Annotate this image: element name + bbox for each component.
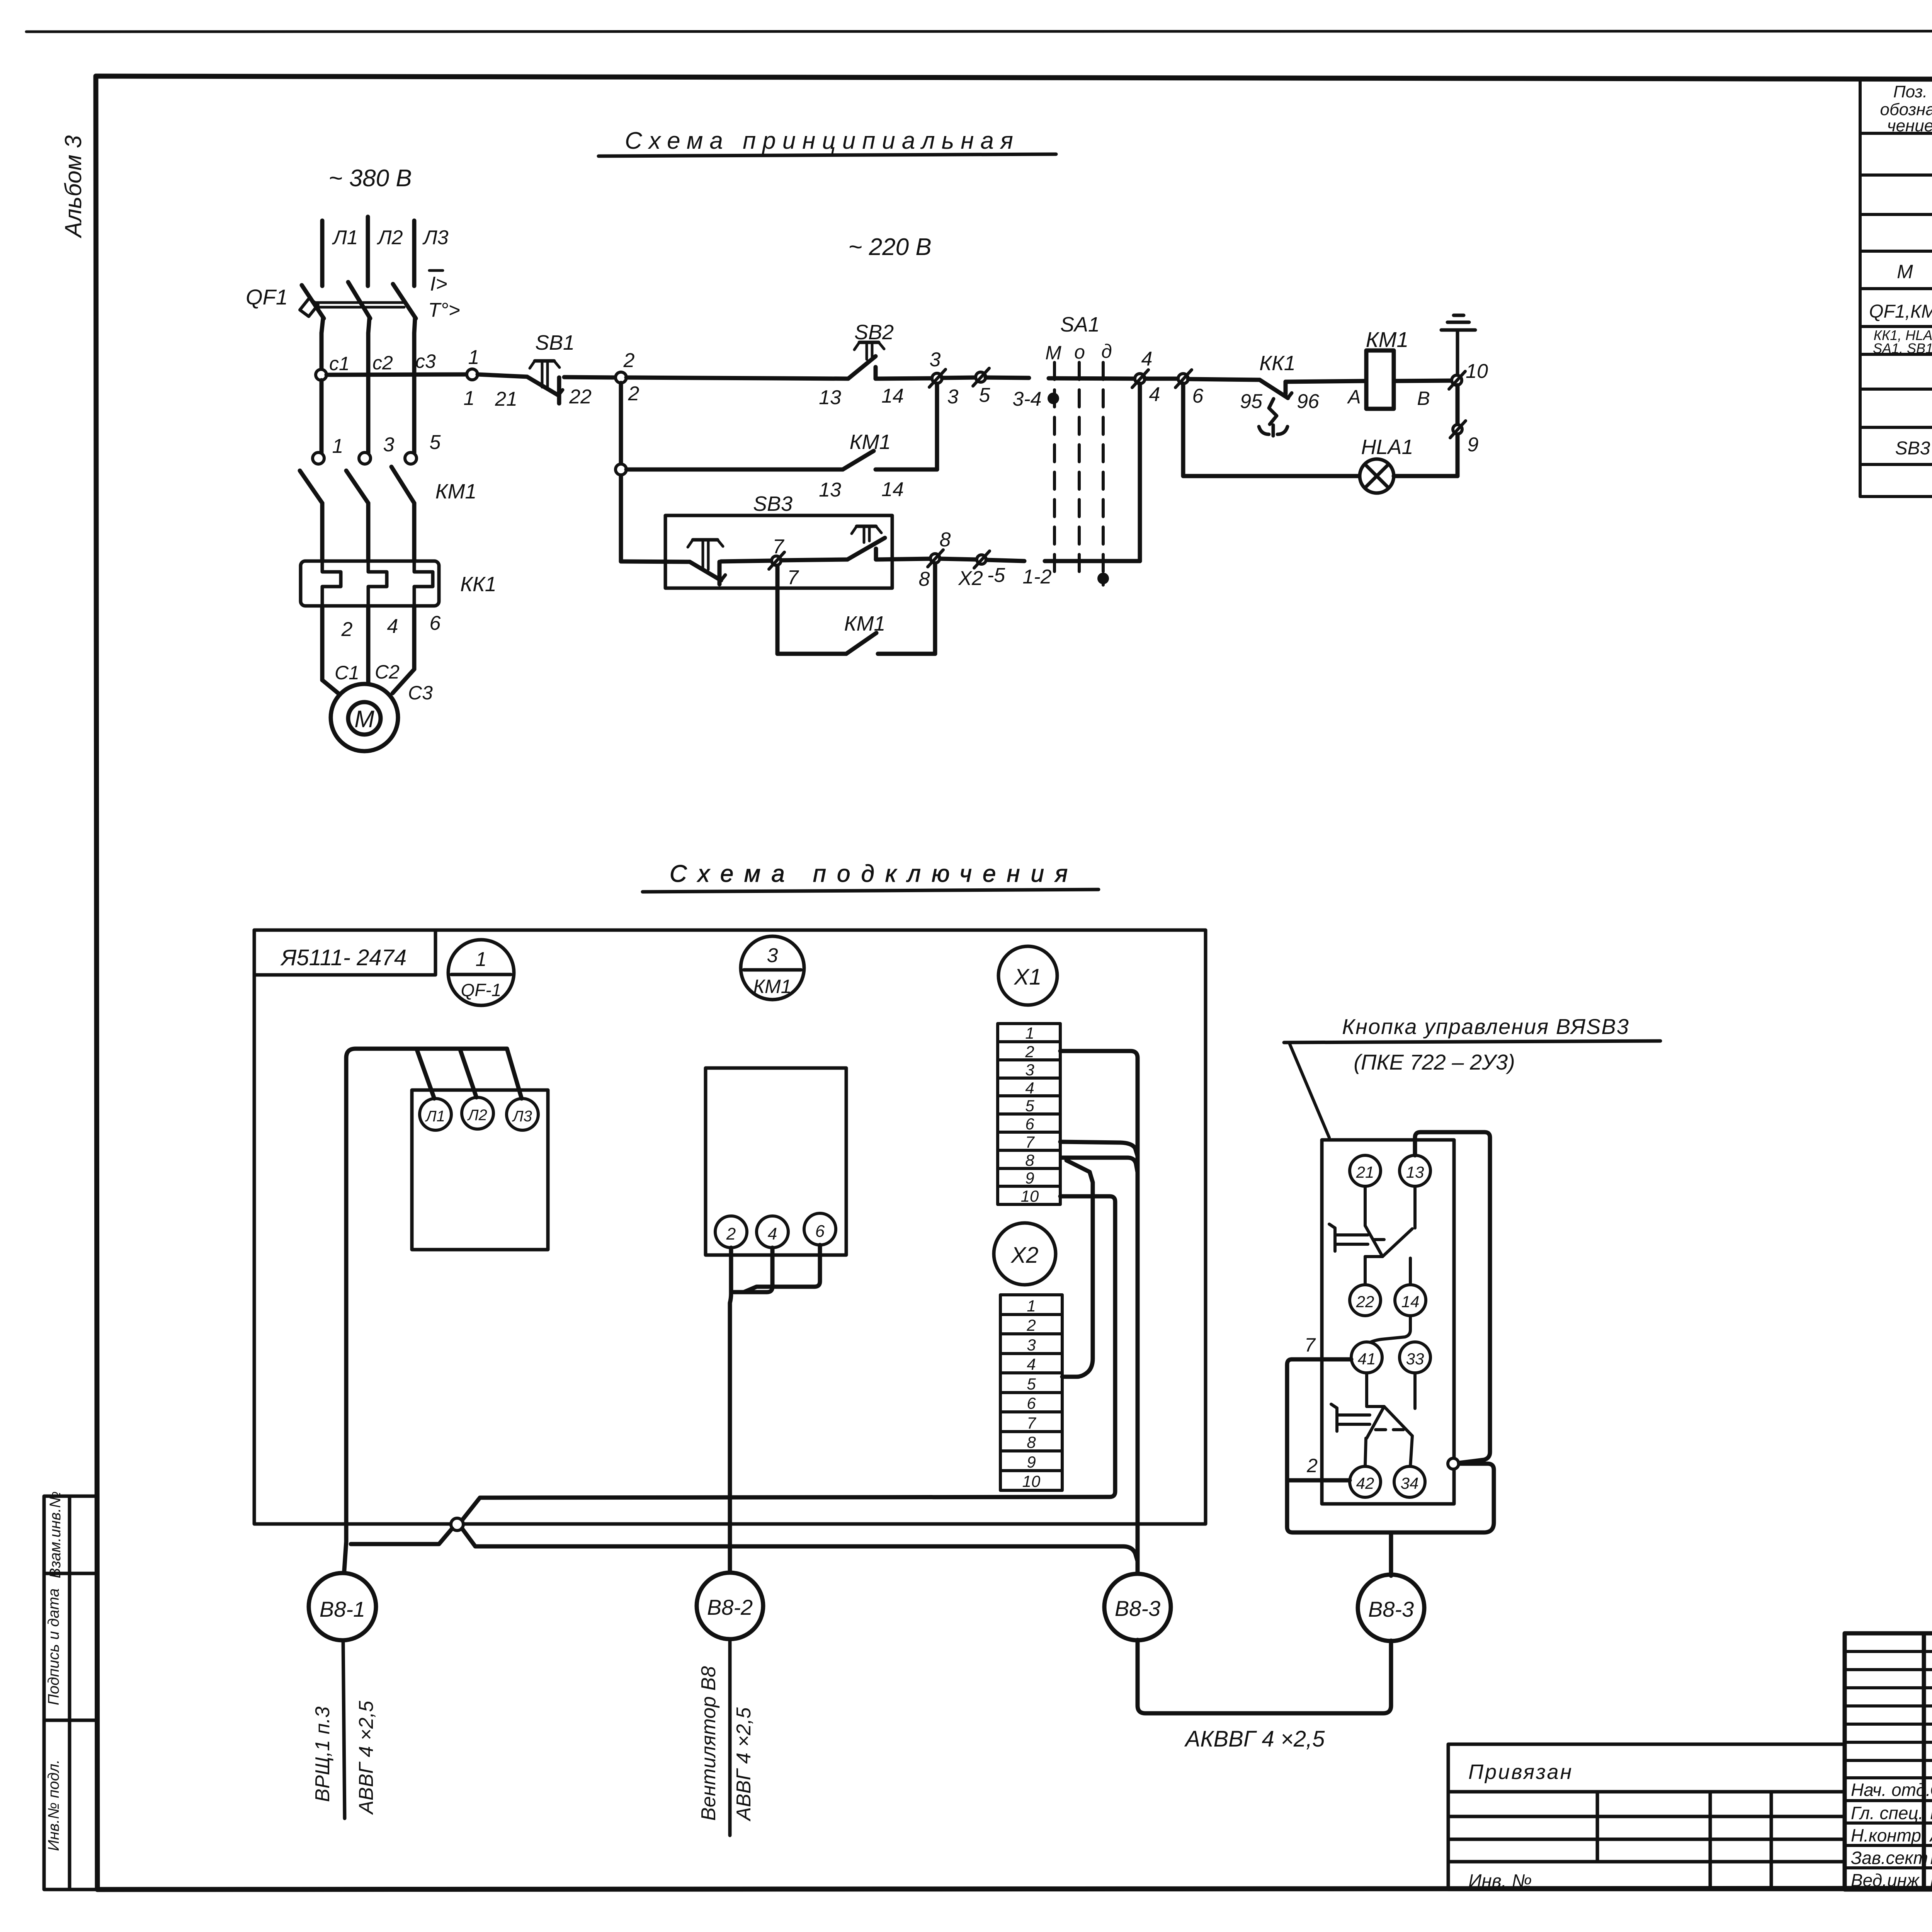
svg-text:T°>: T°> [428, 299, 460, 321]
svg-text:1-2: 1-2 [1022, 566, 1051, 588]
wire terminal 4 to bundle [734, 1248, 772, 1292]
svg-text:Вентилятор В8: Вентилятор В8 [697, 1666, 720, 1821]
label I> (overcurrent release) [429, 270, 447, 295]
svg-text:4: 4 [1149, 383, 1160, 406]
motor M [331, 684, 398, 751]
wire terminal 5 to SA1 gap [986, 378, 1029, 378]
svg-text:Л3: Л3 [422, 226, 449, 249]
wire phase Л3 [412, 221, 417, 286]
svg-text:~ 220 В: ~ 220 В [848, 234, 931, 260]
cable circle BB-3 (button side) [1358, 1575, 1424, 1641]
label box Я5111-2474 [254, 930, 435, 975]
wire X1-2 to BB-3 [1060, 1051, 1138, 1575]
terminal Л2 [462, 1097, 493, 1129]
terminal 8 (slashed circle) [928, 550, 943, 567]
wire stub 2 to terminal 42 [1287, 1478, 1350, 1483]
svg-text:9: 9 [1027, 1453, 1036, 1471]
svg-text:Выгалова: Выгалова [1930, 1870, 1932, 1890]
svg-text:3: 3 [767, 944, 778, 967]
svg-text:КМ1: КМ1 [844, 612, 886, 635]
pushbutton SB2 (NO start) [848, 342, 884, 379]
svg-text:13: 13 [819, 386, 841, 409]
svg-text:6: 6 [430, 612, 441, 634]
wire terminal 6 to bundle [744, 1245, 820, 1292]
wire SA1 gap to terminal 4 [1049, 378, 1135, 379]
button terminal 34 [1394, 1466, 1425, 1497]
row M: Электродвигатель [1897, 260, 1932, 284]
svg-text:-5: -5 [987, 564, 1005, 587]
svg-text:М: М [1045, 342, 1061, 364]
feeder drop to Л1 [417, 1049, 434, 1099]
terminal 3 (slashed circle) [929, 369, 946, 387]
svg-text:34: 34 [1401, 1474, 1419, 1492]
svg-text:Инв. №: Инв. № [1468, 1871, 1532, 1891]
wire KM1 aux to riser [876, 468, 937, 472]
left margin strip (Взам.инв.№ / Подпись и дата / Инв.№ подл.) [44, 1496, 97, 1889]
wire X1-8 joining cable bundle [1062, 1158, 1138, 1172]
left grid small rows [1845, 1651, 1932, 1868]
terminal 7 (slashed circle) [769, 552, 784, 569]
cable junction (box wall bushing) [451, 1518, 463, 1531]
terminal strip X1 [998, 1024, 1060, 1204]
terminal 6 [804, 1213, 836, 1245]
svg-text:1: 1 [476, 948, 487, 971]
thermal relay contact KK1 (NC) [1259, 380, 1292, 436]
button terminal 41 [1351, 1342, 1382, 1373]
circuit breaker QF1 [300, 282, 416, 453]
svg-text:5: 5 [430, 431, 441, 454]
svg-text:чение: чение [1887, 116, 1932, 135]
svg-text:6: 6 [1025, 1115, 1034, 1133]
wire terminal 3 to terminal 5 [942, 378, 976, 378]
contactor coil KM1 [1366, 350, 1394, 409]
terminal 9 (slashed circle) [1450, 421, 1466, 438]
X2 terminal numbers [1022, 1297, 1041, 1490]
svg-text:3: 3 [930, 349, 941, 371]
svg-text:А: А [1347, 386, 1361, 408]
svg-text:X2: X2 [1010, 1243, 1039, 1268]
svg-text:Л2: Л2 [377, 226, 403, 249]
svg-text:Кнопка управления ВЯSB3: Кнопка управления ВЯSB3 [1342, 1014, 1629, 1039]
svg-text:9: 9 [1468, 434, 1479, 456]
terminal 4 (slashed circle) [1132, 370, 1148, 388]
svg-text:7: 7 [787, 566, 799, 589]
wire node1 to SB1 [478, 374, 527, 377]
row QF1,KM1: Ящик управления [1869, 298, 1932, 322]
terminal 2 [715, 1216, 747, 1248]
svg-text:Кузьмин: Кузьмин [1930, 1848, 1932, 1868]
svg-text:КК1: КК1 [460, 573, 497, 596]
svg-text:QF1,КМ1: QF1,КМ1 [1869, 301, 1932, 322]
wire gap to riser of terminal 4 [1045, 559, 1140, 563]
svg-text:Гл. спец.: Гл. спец. [1851, 1803, 1923, 1823]
svg-text:21: 21 [495, 388, 517, 410]
wire junction to BB-1 feeder [351, 1529, 452, 1544]
svg-text:7: 7 [1304, 1334, 1316, 1356]
svg-text:96: 96 [1297, 390, 1319, 413]
button terminal 22 [1350, 1285, 1381, 1316]
svg-text:1: 1 [464, 387, 475, 410]
terminal 6 (slashed circle) [1175, 370, 1192, 388]
wire terminal 8 to terminal X2-5 [940, 559, 976, 560]
svg-text:АКВВГ 4 ×2,5: АКВВГ 4 ×2,5 [1184, 1726, 1325, 1752]
bracket wire 41/42 to cable BB-3 [1287, 1359, 1494, 1532]
svg-text:I>: I> [430, 273, 447, 295]
svg-text:Л1: Л1 [425, 1108, 445, 1125]
svg-text:4: 4 [768, 1225, 777, 1243]
wire node2 down to KM1 aux contact rung [619, 383, 623, 561]
wire X1-8 branch to X2-5 [1062, 1160, 1093, 1377]
wire junction to BB-3 [462, 1529, 1138, 1561]
svg-text:X1: X1 [1014, 964, 1042, 990]
signature rows names [1929, 1780, 1932, 1890]
svg-text:3: 3 [947, 386, 959, 408]
svg-text:3-4: 3-4 [1012, 388, 1041, 410]
cable stub below BB-1 [343, 1641, 345, 1818]
wire terminal 6 to KK1 contact [1188, 379, 1260, 380]
button terminal 33 [1400, 1342, 1430, 1373]
thermal relay heaters KK1 [301, 561, 439, 606]
svg-text:10: 10 [1021, 1187, 1039, 1205]
button terminal 42 [1350, 1466, 1381, 1497]
terminal 4 [757, 1216, 788, 1248]
svg-text:КМ1: КМ1 [850, 430, 891, 454]
SA1 position dot 3-4 (on М line) [1048, 393, 1059, 404]
wire terminal 7 down to KM1 bypass contact [776, 566, 780, 654]
terminal X2-5 (slashed circle) [974, 551, 990, 568]
svg-text:Взам.инв.№: Взам.инв.№ [47, 1491, 64, 1578]
svg-text:10: 10 [1022, 1472, 1041, 1490]
indicator lamp HLA1 [1360, 459, 1394, 493]
wire bypass contact to terminal 8 riser [878, 652, 935, 656]
svg-text:3: 3 [1025, 1061, 1034, 1079]
svg-text:8: 8 [1025, 1151, 1034, 1169]
control box Я5111-2474 outline [254, 930, 1206, 1524]
wire phase Л2 [366, 217, 370, 286]
wire node2 to SB2 [626, 378, 848, 379]
upper contact pair (21-22 / 13-14) [1329, 1186, 1415, 1285]
label Кнопка управления В Я SB3 [1284, 1014, 1660, 1074]
wire to KM1 bypass contact [777, 652, 846, 656]
svg-text:Я5111- 2474: Я5111- 2474 [280, 945, 406, 970]
svg-text:(ПКЕ 722 – 2У3): (ПКЕ 722 – 2У3) [1354, 1050, 1515, 1074]
feeder wire bus into QF-1 [346, 1049, 507, 1542]
terminal block designator circle X2 [994, 1223, 1056, 1285]
breaker block QF-1 [412, 1090, 548, 1250]
svg-text:Поз.: Поз. [1893, 82, 1928, 101]
junction node (KM1 aux rung) [616, 464, 626, 475]
terminal Л1 [420, 1099, 451, 1130]
cable circle BB-2 [697, 1573, 763, 1639]
terminal block designator circle X1 [998, 946, 1057, 1005]
cable circle BB-1 [309, 1573, 376, 1640]
SB3 start button (NO) [847, 526, 885, 560]
svg-text:2: 2 [341, 618, 353, 641]
svg-text:C3: C3 [408, 682, 433, 704]
svg-text:Вед.инж: Вед.инж [1851, 1870, 1920, 1890]
svg-text:В8-1: В8-1 [320, 1597, 365, 1621]
parts table grid [1860, 80, 1932, 497]
wire SB3 start to terminal 8 [876, 559, 930, 560]
wire 14 to 41 [1371, 1316, 1410, 1342]
svg-text:X2: X2 [958, 567, 983, 590]
wire riser up to terminal 8 [933, 563, 937, 654]
svg-text:Привязан: Привязан [1468, 1760, 1573, 1784]
node 1 [467, 369, 478, 380]
svg-text:7: 7 [1025, 1133, 1035, 1151]
SB3 stop button (NC) [688, 540, 725, 584]
svg-text:8: 8 [1027, 1433, 1036, 1451]
svg-text:41: 41 [1358, 1350, 1376, 1368]
svg-text:КК1: КК1 [1259, 352, 1296, 375]
svg-text:1: 1 [1025, 1024, 1034, 1042]
pushbutton box SB3 outline [1322, 1140, 1454, 1504]
button terminal 14 [1395, 1285, 1426, 1316]
svg-text:1: 1 [1027, 1297, 1036, 1315]
svg-text:SB2: SB2 [854, 321, 894, 344]
svg-text:2: 2 [726, 1225, 736, 1243]
svg-text:4: 4 [1141, 348, 1153, 370]
bypass contact KM1 (NO) [846, 633, 876, 654]
svg-text:Н.контр.: Н.контр. [1851, 1825, 1926, 1845]
svg-text:КМ1: КМ1 [1366, 327, 1409, 352]
ground symbol [1441, 315, 1475, 375]
svg-text:3: 3 [383, 434, 395, 456]
wire terminal 7 to SB3 start [781, 560, 847, 560]
page margin top line [26, 31, 1932, 32]
svg-text:2: 2 [1025, 1043, 1034, 1061]
svg-text:13: 13 [1406, 1163, 1424, 1181]
wire phase Л1 [320, 221, 325, 286]
svg-text:SB3: SB3 [1895, 438, 1930, 459]
svg-text:95: 95 [1240, 390, 1263, 413]
remote pushbutton box SB3 [665, 515, 892, 588]
cable circle BB-3 [1104, 1574, 1171, 1640]
svg-text:c3: c3 [415, 350, 436, 372]
svg-text:8: 8 [919, 568, 930, 590]
designator circle 1/QF-1 [448, 940, 514, 1005]
svg-text:4: 4 [387, 615, 398, 638]
terminal 10 (slashed circle) [1449, 371, 1465, 389]
svg-text:SB3: SB3 [753, 492, 793, 515]
svg-text:22: 22 [569, 386, 592, 408]
cable stub below BB-2 [728, 1639, 732, 1835]
terminal Л3 [507, 1099, 538, 1130]
svg-text:6: 6 [1027, 1394, 1036, 1412]
svg-text:1: 1 [332, 435, 344, 457]
svg-text:C1: C1 [335, 662, 359, 684]
svg-text:7: 7 [1027, 1414, 1036, 1432]
button terminal 13 [1400, 1155, 1430, 1186]
svg-text:2: 2 [623, 349, 635, 372]
svg-text:2: 2 [628, 383, 639, 405]
svg-text:Подпись и дата: Подпись и дата [45, 1588, 62, 1706]
svg-text:8: 8 [940, 529, 951, 551]
svg-text:Л3: Л3 [512, 1108, 532, 1125]
attachment sub-table (Привязан) [1448, 1744, 1845, 1889]
svg-text:1: 1 [468, 346, 480, 369]
svg-text:SB1: SB1 [535, 331, 575, 354]
svg-text:2: 2 [1026, 1316, 1036, 1334]
svg-text:Л1: Л1 [332, 226, 358, 249]
lamp circuit wire (from terminal 6 down and right to HLA1) [1183, 384, 1362, 476]
wire stub 7 to terminal 41 [1292, 1357, 1351, 1362]
svg-text:7: 7 [773, 536, 785, 558]
wire node2 down to SB3 rung [621, 561, 690, 562]
feeder drop to Л3 [507, 1049, 522, 1099]
svg-text:Альбом 3: Альбом 3 [60, 135, 86, 238]
header Поз. обозначение [1880, 82, 1932, 135]
svg-text:14: 14 [1401, 1293, 1420, 1311]
svg-text:21: 21 [1356, 1163, 1374, 1181]
wire control bus to node 1 [327, 374, 467, 375]
contactor main contacts KM1 [300, 452, 417, 561]
wire from terminal 2 down to BB-2 [730, 1248, 731, 1573]
lower contact pair (41-42 / 33-34) [1331, 1373, 1415, 1466]
svg-text:В8-2: В8-2 [707, 1595, 753, 1619]
wire BB-1 feeder down to BB-1 [344, 1542, 346, 1576]
cable link BB-3 to BB-3 [1138, 1640, 1391, 1713]
svg-text:д: д [1101, 340, 1112, 362]
pushbutton SB1 (NC stop) [527, 361, 563, 403]
svg-text:Нужин: Нужин [1930, 1803, 1932, 1823]
wire riser up to terminal 3 [935, 384, 939, 469]
row KK1,HLA1,SA1,SB1,2: Я5111-2474 УХЛ4 [1873, 327, 1932, 356]
wires heaters to motor [322, 606, 414, 695]
wire HLA1 to terminal 9 branch [1394, 474, 1458, 478]
svg-text:~ 380 В: ~ 380 В [328, 165, 412, 192]
svg-text:Схема подключения: Схема подключения [670, 861, 1078, 887]
svg-text:Инв.№ подл.: Инв.№ подл. [45, 1759, 62, 1851]
drop to cable circle BB-3 (button side) [1389, 1532, 1393, 1576]
svg-text:АВВГ 4 ×2,5: АВВГ 4 ×2,5 [733, 1707, 755, 1822]
wire X2-5 to gap [986, 560, 1024, 561]
svg-text:22: 22 [1356, 1293, 1374, 1311]
wire riser terminal 4 down to SB3 rung [1138, 384, 1142, 561]
node on phase c1 (tap of control circuit) [316, 369, 327, 380]
svg-text:14: 14 [881, 478, 904, 501]
auxiliary contact KM1 (self-holding, NO) [843, 451, 874, 469]
svg-text:3: 3 [1027, 1336, 1036, 1354]
svg-text:о: о [1074, 341, 1085, 363]
title: Схема принципиальная [599, 128, 1056, 156]
wire to KM1 aux contact [626, 468, 843, 472]
svg-text:QF1: QF1 [246, 285, 288, 309]
svg-text:2: 2 [1306, 1455, 1318, 1476]
svg-text:6: 6 [1192, 385, 1204, 407]
svg-text:Соколовский: Соколовский [1930, 1780, 1932, 1800]
wire terminal 4 to terminal 6 [1145, 377, 1178, 381]
selector switch SA1 (dashed position lines М О Д) [1054, 362, 1103, 585]
wire X1-10 to cable junction [462, 1196, 1115, 1520]
node 2 [616, 372, 626, 383]
svg-text:В: В [1417, 388, 1430, 409]
contactor block КМ1 [706, 1068, 846, 1255]
svg-text:33: 33 [1406, 1350, 1424, 1368]
X1 terminal numbers [1021, 1024, 1039, 1205]
svg-text:10: 10 [1466, 360, 1488, 383]
svg-text:13: 13 [819, 479, 841, 501]
signature rows labels [1851, 1780, 1931, 1890]
svg-text:C2: C2 [375, 661, 400, 683]
svg-text:5: 5 [979, 384, 991, 406]
terminal strip X2 [1000, 1295, 1062, 1490]
title block frame [1845, 1633, 1932, 1889]
svg-text:М: М [1897, 261, 1913, 282]
svg-text:SA1: SA1 [1060, 313, 1100, 336]
wire terminal 13 to bushing [1415, 1132, 1490, 1463]
row SB3: Кнопка управления [1895, 433, 1932, 459]
svg-text:КМ1: КМ1 [753, 976, 792, 997]
wire SB1 to node 2 [564, 377, 616, 378]
svg-text:АВВГ 4 ×2,5: АВВГ 4 ×2,5 [355, 1701, 378, 1815]
wire SB3 stop to terminal 7 [721, 561, 772, 561]
svg-text:Схема принципиальная: Схема принципиальная [625, 128, 1020, 154]
wire X1-7 joining cable bundle [1060, 1142, 1138, 1156]
wire terminal 10 down to terminal 9 [1456, 385, 1460, 476]
svg-text:В8-3: В8-3 [1115, 1596, 1160, 1621]
svg-text:4: 4 [1025, 1079, 1034, 1097]
wire KK1 to KM1 coil [1286, 381, 1366, 382]
title: Схема подключения [643, 861, 1099, 892]
svg-text:Л2: Л2 [467, 1107, 487, 1124]
svg-text:5: 5 [1025, 1097, 1034, 1115]
svg-text:ВРЩ,1 п.3: ВРЩ,1 п.3 [311, 1706, 334, 1802]
svg-text:Зав.сект: Зав.сект [1851, 1848, 1928, 1868]
wire SB2 to terminal 3 [876, 378, 932, 379]
terminal 5 (slashed circle) [973, 368, 989, 386]
designator circle 3/КМ1 [741, 936, 804, 1000]
leader line to button box [1289, 1043, 1329, 1138]
box wall bushing circle [1448, 1458, 1459, 1469]
feeder drop to Л2 [460, 1049, 476, 1097]
svg-text:В8-3: В8-3 [1368, 1597, 1414, 1621]
svg-text:9: 9 [1025, 1169, 1034, 1187]
svg-text:SA1, SB1,2: SA1, SB1,2 [1873, 340, 1932, 356]
svg-text:HLA1: HLA1 [1361, 435, 1413, 459]
svg-text:М: М [354, 706, 374, 733]
svg-text:c2: c2 [372, 352, 393, 374]
svg-text:QF-1: QF-1 [461, 980, 502, 1000]
svg-text:КМ1: КМ1 [435, 480, 477, 503]
svg-text:14: 14 [881, 385, 904, 407]
button terminal 21 [1350, 1155, 1381, 1186]
svg-text:5: 5 [1027, 1375, 1036, 1393]
svg-text:6: 6 [815, 1222, 825, 1241]
svg-text:c1: c1 [329, 353, 350, 374]
svg-text:42: 42 [1356, 1474, 1374, 1492]
svg-text:4: 4 [1027, 1355, 1036, 1373]
wire KM1 coil to terminal 10 [1394, 381, 1452, 381]
SA1 position dot 1-2 (on Д line) [1097, 573, 1109, 584]
svg-text:Нач. отд.: Нач. отд. [1851, 1780, 1931, 1800]
